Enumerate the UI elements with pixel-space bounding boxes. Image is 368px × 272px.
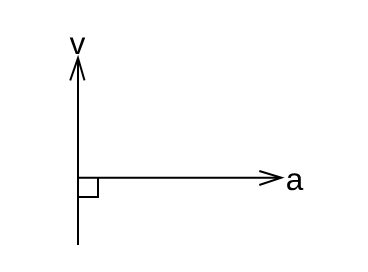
svg-text:v: v — [70, 25, 86, 61]
wire: horizontal shaft of acceleration vector a — [78, 177, 281, 179]
svg-text:a: a — [286, 161, 304, 197]
right-angle mark at intersection — [78, 178, 98, 197]
arrowhead of vector v (open V, pointing up) — [70, 58, 84, 80]
wire: vertical shaft of velocity vector v — [77, 58, 79, 245]
arrowhead of vector a (open V, pointing right) — [259, 171, 281, 185]
